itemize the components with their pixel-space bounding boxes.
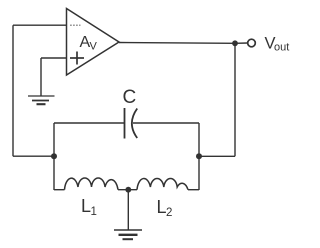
op-amp U1 [67,9,120,76]
inductor L1 [65,178,119,190]
wire: right horizontal to tank [199,155,235,157]
wire: non-inverting input [41,57,67,59]
op-amp plus sign [70,52,84,65]
terminal Vout (open circle) [248,39,256,47]
wire: tank right vertical [198,123,200,190]
label L2 [157,197,173,219]
node B (output junction dot) [232,40,238,46]
svg-text:2: 2 [166,207,172,219]
svg-text:L: L [157,197,167,217]
label Vout [265,34,290,53]
wire: L2 to bottom-right [188,189,199,191]
wire: top-left to capacitor [54,122,125,124]
op-amp gain label Av [80,34,98,53]
svg-text:L: L [81,196,91,216]
wire: tank left vertical [53,123,55,190]
svg-text:C: C [123,87,137,108]
op-amp minus input dash [70,24,81,26]
wire: output to terminal [235,42,248,44]
wire: inverting input feedback (top) [13,24,67,26]
svg-text:out: out [274,42,289,54]
ground G1 [28,96,55,104]
node A (left junction dot) [51,153,57,159]
wire: left horizontal to tank [13,155,54,157]
ground G2 [114,230,142,239]
wire: right vertical from output [234,43,236,156]
ground G2 stem [127,190,129,230]
wire: L1 to center tap [118,189,137,191]
ground G1 stem [40,58,42,96]
label L1 [81,196,97,218]
svg-text:1: 1 [91,206,97,218]
wire: bottom-left to L1 [54,189,65,191]
inductor L2 [137,178,188,189]
capacitor C left plate [124,108,126,139]
node C (right junction dot) [196,153,202,159]
node D (center tap dot) [125,187,131,193]
wire: op-amp output [119,42,235,45]
wire: left vertical feedback [12,25,14,156]
capacitor C right plate (curved) [132,109,137,139]
wire: capacitor to top-right [133,122,199,124]
svg-text:V: V [90,41,98,53]
